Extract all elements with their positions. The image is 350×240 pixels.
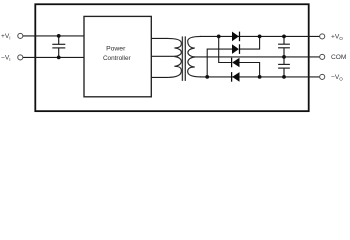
junction C1 top <box>57 34 61 38</box>
junction C3 bottom <box>282 75 286 79</box>
junction COM caps <box>282 55 286 59</box>
terminal +Vi <box>18 33 23 38</box>
junction row4 -Vo <box>258 75 262 79</box>
junction row1 +Vo <box>258 35 262 39</box>
svg-text:COM: COM <box>331 54 346 61</box>
junction row4 bottom-lead <box>205 75 209 79</box>
wire D2 cathode up to +Vo rail <box>240 36 260 49</box>
terminal -Vi <box>18 55 23 60</box>
transformer T1 primary winding <box>168 38 182 77</box>
diode D4 <box>232 72 239 82</box>
svg-text:Power: Power <box>106 46 126 53</box>
wire primary top lead <box>151 37 168 39</box>
wire primary center tap <box>151 55 175 57</box>
wire D3 anode down to -Vo rail <box>240 63 260 77</box>
wire vertical bottom-lead to D2 anode <box>207 49 232 77</box>
junction C2 top <box>282 35 286 39</box>
transformer T1 core <box>181 36 183 81</box>
wire -Vi rail <box>23 56 85 58</box>
transformer T1 secondary winding <box>188 36 201 77</box>
svg-text:I: I <box>9 57 10 62</box>
terminal +Vo <box>320 34 325 39</box>
capacitor C2 output +Vo/COM <box>278 36 290 57</box>
wire primary bottom lead <box>151 76 168 78</box>
module outline <box>35 4 308 111</box>
svg-text:Controller: Controller <box>103 55 132 62</box>
capacitor C3 output COM/-Vo <box>278 57 290 77</box>
svg-text:I: I <box>9 36 10 41</box>
diode D3 <box>232 58 239 68</box>
wire row4 secondary bottom to -Vo <box>200 76 320 78</box>
junction row1 top-lead <box>217 35 221 39</box>
power controller U1 box <box>84 16 151 96</box>
junction C1 bottom <box>57 56 61 60</box>
terminal -Vo <box>320 74 325 79</box>
wire vertical top-lead to D3 cathode <box>219 36 232 62</box>
capacitor C1 input <box>52 36 65 58</box>
svg-text:O: O <box>339 77 343 82</box>
svg-text:O: O <box>339 36 343 41</box>
diode D1 <box>232 32 239 42</box>
diode D2 <box>232 44 239 54</box>
wire COM rail <box>194 56 320 58</box>
terminal COM <box>320 54 325 59</box>
wire row1 secondary top to +Vo <box>200 35 320 37</box>
wire +Vi rail <box>23 35 85 37</box>
